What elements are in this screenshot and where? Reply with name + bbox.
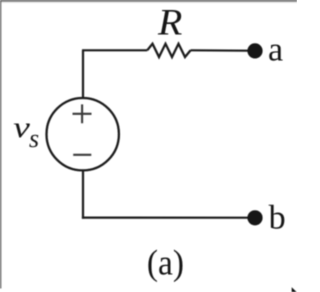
wire resistor to node a (191, 49, 249, 52)
svg-text:s: s (29, 124, 39, 153)
voltage source vs (46, 98, 118, 170)
svg-text:b: b (269, 200, 286, 237)
svg-text:R: R (157, 3, 182, 43)
mouse cursor (292, 287, 297, 292)
svg-text:a: a (268, 32, 283, 69)
label vs (13, 111, 39, 153)
wire from voltage source top to corner (82, 50, 84, 99)
svg-text:(a): (a) (147, 243, 184, 282)
node a terminal dot (247, 43, 262, 58)
node b terminal dot (247, 210, 262, 225)
wire top horizontal to resistor (82, 49, 147, 51)
wire bottom horizontal to node b (82, 217, 249, 219)
resistor R (147, 44, 190, 57)
wire voltage source bottom vertical (82, 170, 84, 219)
